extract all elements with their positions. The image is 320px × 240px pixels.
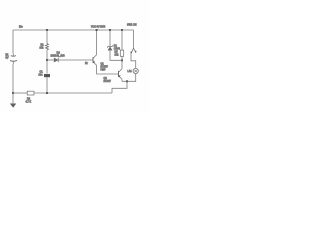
node junction D1-R3-Q2 [121,59,123,61]
wire bottom rail left [13,92,27,94]
diode D2 [54,58,58,63]
svg-text:10u: 10u [39,74,44,77]
battery BT1 [10,54,17,65]
svg-text:SW1 ON: SW1 ON [127,23,137,26]
wire base branch left [47,59,54,61]
svg-text:LA1: LA1 [128,70,133,73]
wire switch feed [133,30,135,49]
wire return to ground rail [112,81,127,93]
ground [10,104,16,108]
wire divider bottom [46,77,48,93]
svg-text:10k: 10k [40,47,45,50]
svg-text:1N4148_AV3: 1N4148_AV3 [51,55,66,58]
resistor R1 (zigzag) [46,44,49,50]
zener diode D1 [108,45,113,50]
wire divider upper [46,30,48,44]
svg-text:10k: 10k [115,54,120,57]
svg-text:1k: 1k [85,62,88,65]
svg-text:9V: 9V [6,57,9,60]
resistor R2 (box in bottom rail) [27,91,34,95]
svg-text:IN+: IN+ [19,26,23,29]
node junction left-bottom [12,92,14,94]
svg-text:BC547: BC547 [104,80,112,83]
wire Q1 emitter to Q2 base [97,65,119,74]
transistor Q1 [93,55,97,65]
wire zener branch upper [109,30,111,46]
wire divider lower [46,60,48,74]
resistor R3 (box) [120,50,123,56]
wire divider middle [46,50,48,60]
wire top rail [13,29,134,31]
node junction rail x122 [121,29,123,31]
node junction rail x110 [109,29,111,31]
lamp LA1 [133,68,138,73]
wire Q1 collector [96,30,98,55]
wire ground stub [12,93,14,104]
wire bottom rail right [34,92,112,94]
wire R3 branch lower [121,56,123,60]
wire switch to lamp [131,53,136,68]
svg-text:VCC 9V BUS: VCC 9V BUS [91,26,106,29]
switch SW1 [130,48,136,54]
capacitor C1 [44,74,50,77]
node junction top x47 [46,29,48,31]
wire Q2 emitter [121,79,123,81]
wire Q2 collector [121,60,123,69]
node junction divider-base [46,59,48,61]
node junction rail x96 [96,29,98,31]
svg-text:PNP: PNP [101,69,106,72]
svg-text:4.7 K: 4.7 K [26,101,32,104]
node junction bottom x47 [46,92,48,94]
wire left rail upper [12,30,14,54]
wire base branch right [58,59,92,61]
node junction emitter-lamp [126,80,128,82]
wire zener branch lower [110,51,122,61]
transistor Q2 [119,69,123,79]
wire lamp bottom [122,74,136,82]
wire left rail lower [12,64,14,93]
wire R3 branch upper [121,30,123,50]
